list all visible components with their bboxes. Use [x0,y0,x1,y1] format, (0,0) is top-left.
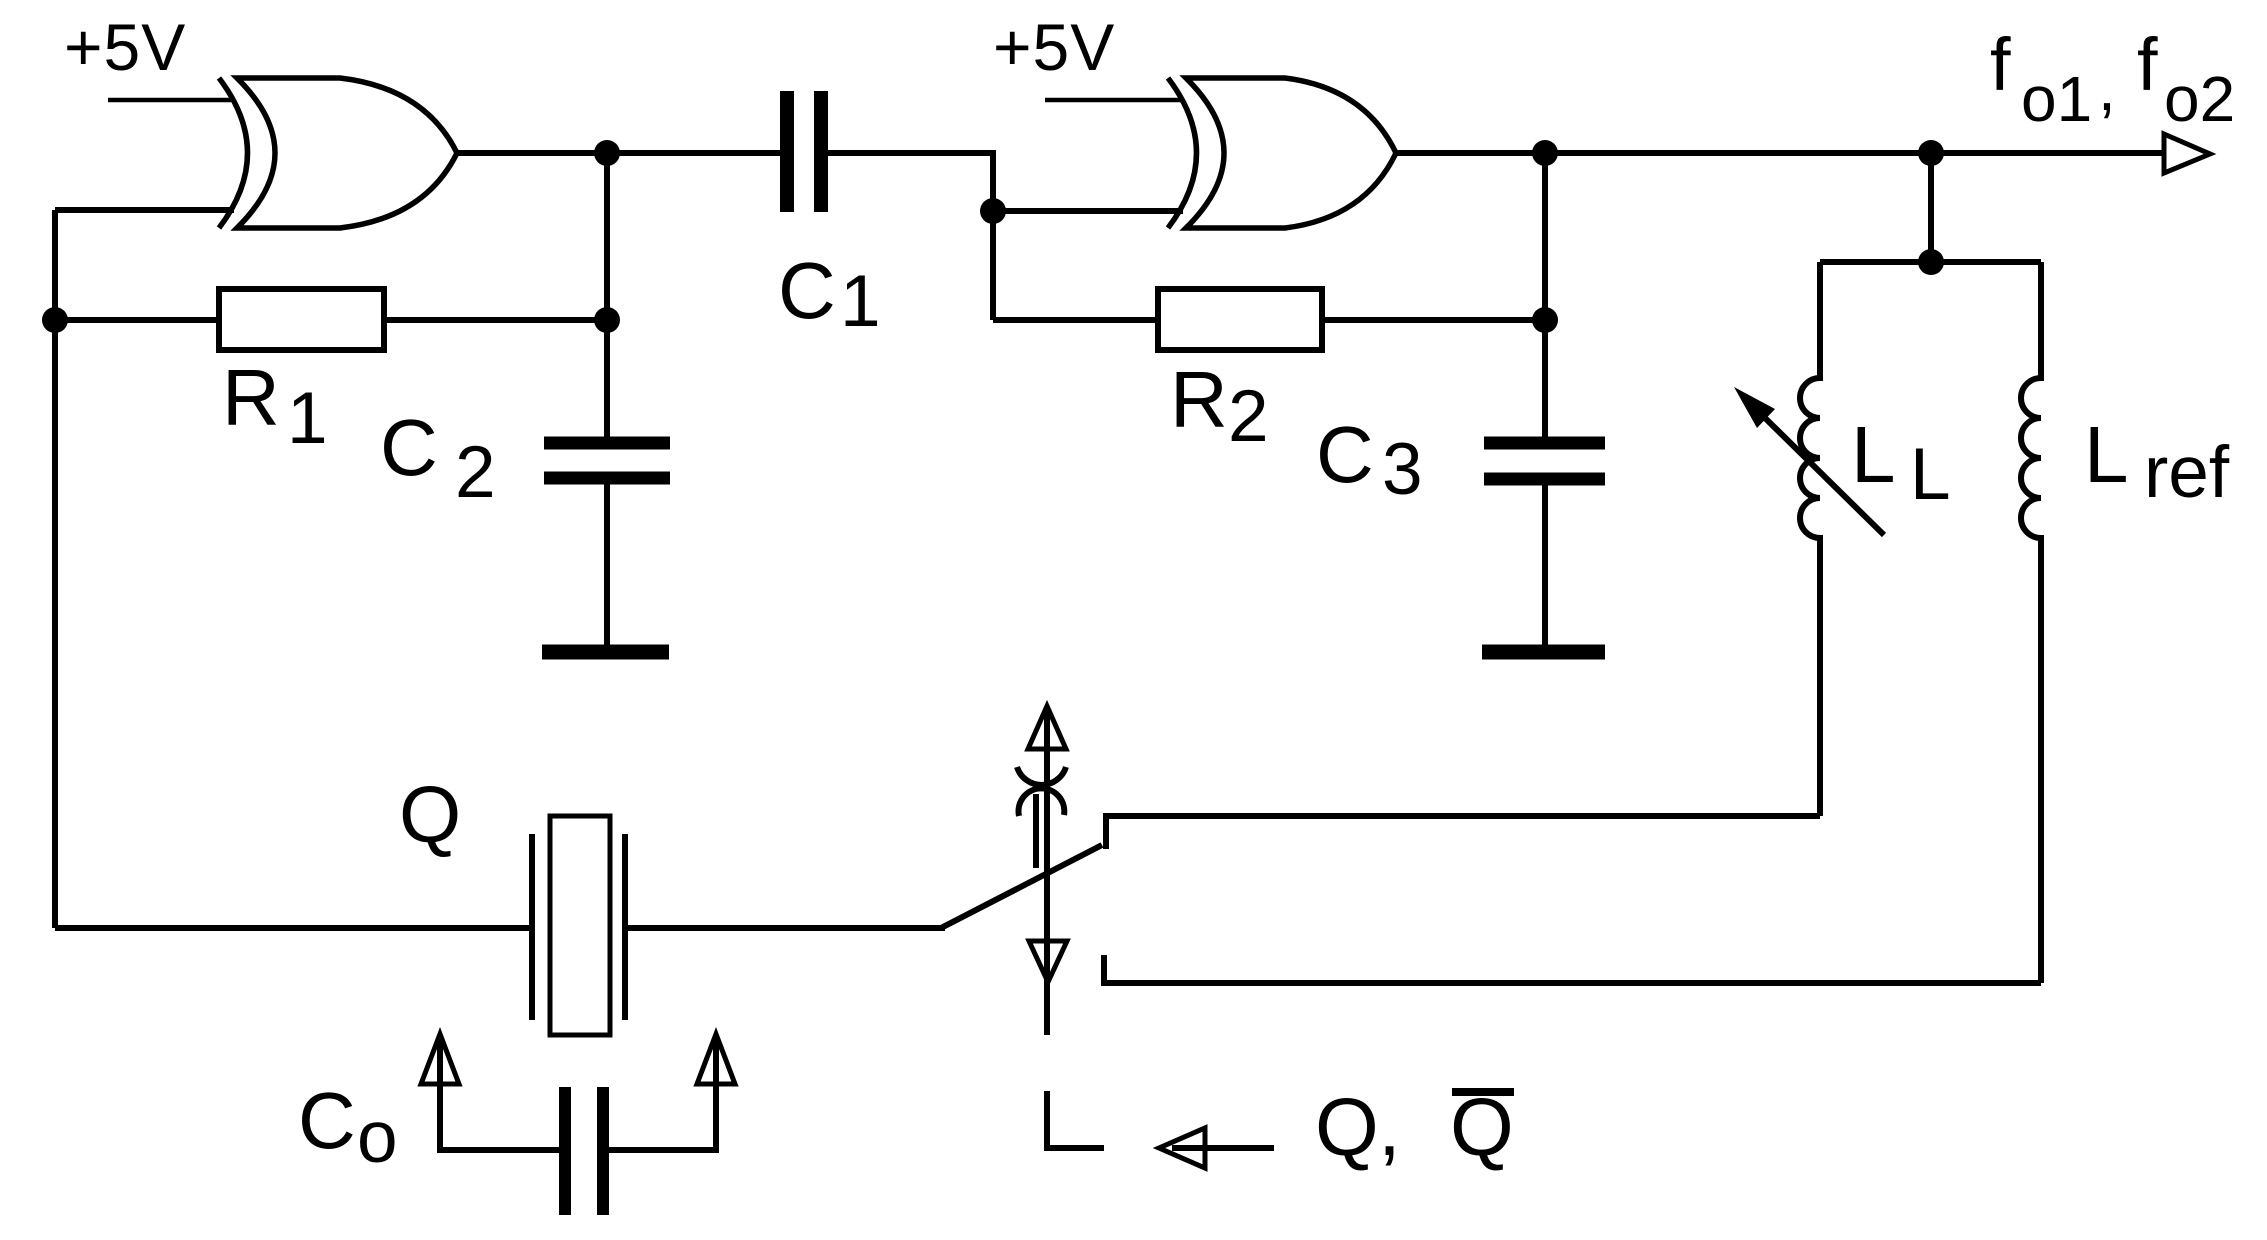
switch actuator shaft [1044,708,1050,1035]
svg-text:+5V: +5V [64,10,186,84]
ground (C2) [542,645,669,660]
svg-text:1: 1 [287,378,328,459]
arrow C0 left [421,1034,459,1084]
svg-text:C: C [298,1076,356,1165]
capacitor C3 [1484,443,1605,479]
label LL [1851,410,1951,515]
svg-text:C: C [1316,410,1374,499]
svg-text:C: C [380,403,438,492]
wire node D to U2 bottom input [993,208,1183,214]
svg-text:f: f [1990,23,2011,106]
control arrow Q,Qbar [1159,1128,1205,1168]
wire C0 right arm [609,1036,716,1150]
wire U1 top input [108,98,234,103]
svg-text:Q: Q [1315,1082,1379,1173]
node H (tank top junction) [1918,249,1944,275]
node B (left rail / R1) [42,307,68,333]
node F (R2 / C3 junction) [1532,307,1558,333]
svg-text:f: f [2137,23,2158,106]
wire R1 left [55,317,219,323]
svg-text:C: C [778,246,836,335]
capacitor C0 [565,1087,603,1215]
wire control arrow shaft [1172,1145,1274,1151]
label C1 [778,246,881,342]
capacitor C2 [544,443,670,478]
svg-text:,: , [2098,52,2116,124]
wire tank top [1820,259,2041,265]
xor gate U2 [1168,78,1396,228]
label C3 [1316,410,1423,510]
wire Lref throw contact [1104,955,2041,983]
resistor R1 [219,289,384,350]
wire U2 top input [1045,98,1183,103]
svg-text:1: 1 [840,261,881,342]
svg-text:,: , [1378,1082,1401,1173]
wire C3 to ground [1542,484,1548,646]
wire node E down to C3 [1542,153,1548,437]
wire R2 right to node F [1322,317,1545,323]
svg-text:L: L [2084,410,2129,499]
switch actuator down arrow [1029,941,1067,982]
wire crystal left [55,925,532,931]
svg-text:L: L [1851,410,1896,499]
svg-text:o: o [357,1097,398,1178]
wire C0 left arm [440,1036,559,1150]
wire U1 output to C1 [457,150,783,156]
crystal Q [532,816,625,1035]
node D (U2 input junction) [980,198,1006,224]
wire C2 to ground [604,483,610,646]
label R2 [1170,355,1269,457]
wire U1 bottom input [55,207,234,213]
label fo1, fo2 [1990,23,2235,135]
switch actuator up arrow [1028,706,1066,749]
svg-text:L: L [1910,434,1951,515]
wire R1 right to node C [384,317,607,323]
label R1 [222,353,328,459]
overbar of Qbar [1452,1088,1514,1096]
svg-text:+5V: +5V [993,10,1115,84]
label Q, Qbar [1315,1082,1514,1173]
wire LL throw contact [1106,816,1820,849]
svg-text:3: 3 [1382,429,1423,510]
wire node A down to C2 [604,153,610,437]
node C (R1 / C2 junction) [594,307,620,333]
inductor LL (variable) [1800,262,1820,816]
label C0 [298,1076,398,1178]
svg-text:R: R [1170,355,1228,444]
wire crystal right to switch pole [625,925,945,931]
svg-text:2: 2 [1228,376,1269,457]
inductor Lref [2021,262,2041,983]
svg-text:ref: ref [2144,432,2230,513]
node A (U1 output junction) [594,140,620,166]
node G (output / tank junction) [1918,140,1944,166]
switch actuator cup arc [1017,767,1066,785]
arrow C0 right [697,1034,735,1084]
wire switch control corner [1047,1091,1104,1148]
resistor R2 [1158,289,1322,350]
svg-text:Q: Q [399,770,461,859]
label C2 [380,403,496,513]
svg-text:o1: o1 [2021,63,2092,135]
switch actuator second shaft [1033,794,1039,868]
xor gate U1 [219,78,457,228]
svg-text:2: 2 [455,432,496,513]
output arrow fo1,fo2 [2164,134,2210,173]
switch actuator flare arc [1019,788,1065,816]
arrow across LL [1734,387,1884,535]
wire to R2 [993,317,1158,323]
capacitor C1 [787,91,821,212]
wire U2 output line [1396,150,2167,156]
label Lref [2084,410,2230,513]
wire node G down [1928,153,1934,262]
svg-text:o2: o2 [2164,63,2235,135]
wire left feedback rail [52,210,58,928]
node E (U2 output junction) [1532,140,1558,166]
wire C1 right / corner down [825,153,993,320]
switch lever [941,845,1102,928]
svg-text:R: R [222,353,280,442]
ground (C3) [1482,645,1605,660]
